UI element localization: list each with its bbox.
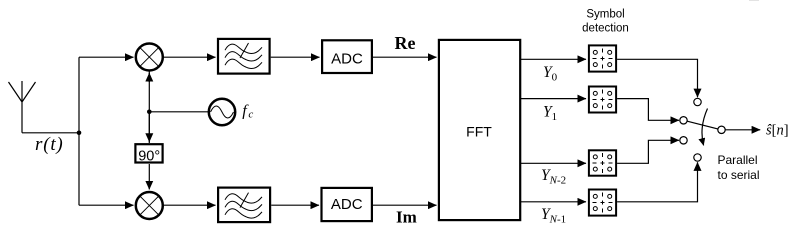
svg-text:Symbol: Symbol xyxy=(586,9,624,21)
svg-text:FFT: FFT xyxy=(466,124,492,140)
svg-text:Re: Re xyxy=(395,33,416,53)
svg-text:YN-2: YN-2 xyxy=(541,167,566,187)
svg-text:r(t): r(t) xyxy=(35,134,64,155)
svg-text:Y0: Y0 xyxy=(543,64,558,84)
svg-text:to serial: to serial xyxy=(718,168,760,182)
svg-text:Parallel: Parallel xyxy=(718,153,758,167)
svg-text:90°: 90° xyxy=(138,149,160,165)
svg-text:Im: Im xyxy=(396,208,417,227)
svg-text:ŝ[n]: ŝ[n] xyxy=(766,123,789,139)
svg-text:ADC: ADC xyxy=(331,196,363,213)
svg-text:YN-1: YN-1 xyxy=(541,206,566,226)
svg-text:fc: fc xyxy=(242,101,253,121)
svg-text:detection: detection xyxy=(582,23,629,35)
svg-text:ADC: ADC xyxy=(331,51,363,68)
svg-text:Y1: Y1 xyxy=(543,104,557,124)
